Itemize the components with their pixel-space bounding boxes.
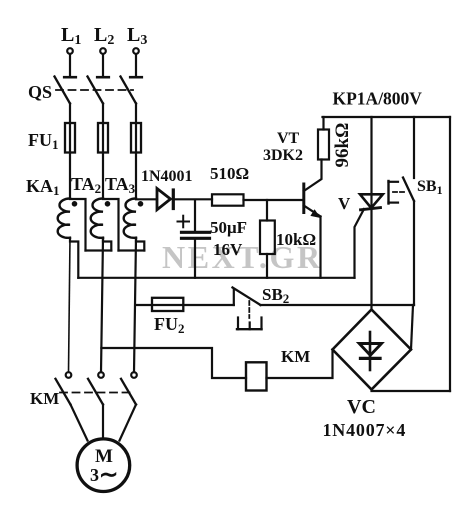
wire L2 QS to fuse	[102, 104, 104, 199]
wire TA3 bottom step	[136, 238, 144, 251]
transformer TA3 winding	[124, 199, 136, 238]
svg-text:L1: L1	[61, 24, 81, 48]
resistor 510ohm	[212, 194, 244, 205]
wire KA1 top branch	[70, 199, 86, 251]
wire 510 to base	[244, 199, 303, 201]
wire bottom common rail	[78, 277, 354, 279]
svg-text:KM: KM	[281, 347, 310, 366]
svg-text:L2: L2	[94, 24, 114, 48]
contactor KM pole 2	[88, 372, 104, 404]
transistor VT base bar	[302, 184, 305, 213]
wire TA2 bottom step	[103, 238, 111, 251]
svg-text:3DK2: 3DK2	[263, 147, 303, 164]
wire phase2 down to KM	[101, 238, 103, 373]
thyristor V	[360, 117, 383, 310]
wire bridge bottom to right rail	[372, 390, 451, 392]
svg-text:QS: QS	[28, 82, 52, 102]
svg-text:KP1A/800V: KP1A/800V	[333, 89, 423, 109]
capacitor C 50uF plus sign	[178, 216, 190, 228]
svg-text:KM: KM	[30, 389, 59, 408]
fuse FU1 pole 1	[65, 123, 75, 153]
svg-text:TA3: TA3	[105, 174, 136, 196]
capacitor C 50uF	[182, 200, 210, 278]
pushbutton SB1	[389, 117, 415, 305]
wire chain TA2-TA3	[119, 249, 145, 251]
svg-text:510Ω: 510Ω	[210, 164, 249, 183]
svg-text:96kΩ: 96kΩ	[332, 123, 353, 168]
svg-text:3∼: 3∼	[90, 462, 118, 487]
junction dot TA3	[138, 201, 144, 207]
motor M	[77, 439, 130, 492]
svg-text:1N4001: 1N4001	[141, 168, 193, 185]
wire junction down to bridge right corner	[411, 305, 413, 350]
wire phase2 tap to KM coil	[101, 348, 246, 378]
transformer TA2 winding	[91, 199, 103, 238]
wire phase3 down to KM	[134, 238, 136, 373]
transistor VT emitter	[304, 206, 321, 278]
wire TA2 top branch	[103, 199, 119, 251]
wire SB2 to bridge junction	[261, 304, 415, 306]
diode 1N4001	[157, 189, 173, 210]
svg-text:VT: VT	[277, 130, 300, 147]
contactor KM linkage dashed	[60, 392, 131, 394]
wire chain KA1-TA2	[86, 249, 112, 251]
relay coil KA1 winding	[58, 199, 70, 238]
node L1 terminal	[64, 48, 76, 77]
svg-text:SB2: SB2	[262, 285, 289, 306]
wire L1 QS to fuse	[69, 104, 71, 199]
svg-text:VC: VC	[347, 396, 376, 418]
contactor KM pole 3	[121, 372, 137, 404]
wire KM coil to bridge left corner	[267, 350, 333, 379]
switch QS pole 3 blade	[121, 77, 137, 104]
pushbutton SB2	[233, 288, 262, 330]
node L2 terminal	[97, 48, 109, 77]
wire L3 QS to fuse	[135, 104, 137, 199]
wire KM pole2 to motor	[102, 405, 104, 440]
svg-text:16V: 16V	[213, 240, 243, 259]
wire KM pole1 to motor	[71, 405, 88, 441]
resistor 96k	[318, 117, 329, 160]
svg-text:50μF: 50μF	[210, 218, 247, 237]
svg-text:FU2: FU2	[154, 314, 185, 336]
wire TA3 to diode	[136, 198, 157, 200]
wire thyristor gate	[355, 209, 365, 278]
svg-text:FU1: FU1	[28, 130, 59, 152]
svg-text:L3: L3	[127, 24, 147, 48]
node L3 terminal	[130, 48, 142, 77]
wire KM pole3 to motor	[120, 405, 137, 441]
junction dot TA2	[105, 201, 111, 207]
wire diode to 510	[173, 198, 212, 200]
transistor VT collector	[304, 160, 322, 192]
svg-text:V: V	[338, 194, 351, 213]
resistor 10k	[260, 200, 275, 278]
bridge rectifier VC	[333, 310, 412, 390]
wire control line FU2/SB2	[136, 304, 234, 306]
contactor coil KM	[246, 362, 267, 390]
switch QS linkage dashed	[56, 89, 133, 91]
svg-text:TA2: TA2	[71, 174, 101, 196]
switch QS pole 2 blade	[88, 77, 104, 104]
fuse FU1 pole 3	[131, 123, 141, 153]
contactor KM pole 1	[56, 372, 72, 404]
svg-text:SB1: SB1	[417, 178, 443, 197]
junction dot KA1	[72, 201, 78, 207]
wire KA1 bottom step to rail	[70, 238, 78, 278]
wire right rail	[449, 117, 451, 391]
fuse FU2	[152, 298, 183, 311]
svg-text:KA1: KA1	[26, 176, 60, 198]
wire top rail	[323, 116, 451, 118]
wire phase1 down to KM	[69, 238, 71, 373]
svg-text:1N4007×4: 1N4007×4	[323, 420, 407, 440]
fuse FU1 pole 2	[98, 123, 108, 153]
svg-text:10kΩ: 10kΩ	[276, 230, 316, 249]
switch QS pole 1 blade	[55, 77, 71, 104]
